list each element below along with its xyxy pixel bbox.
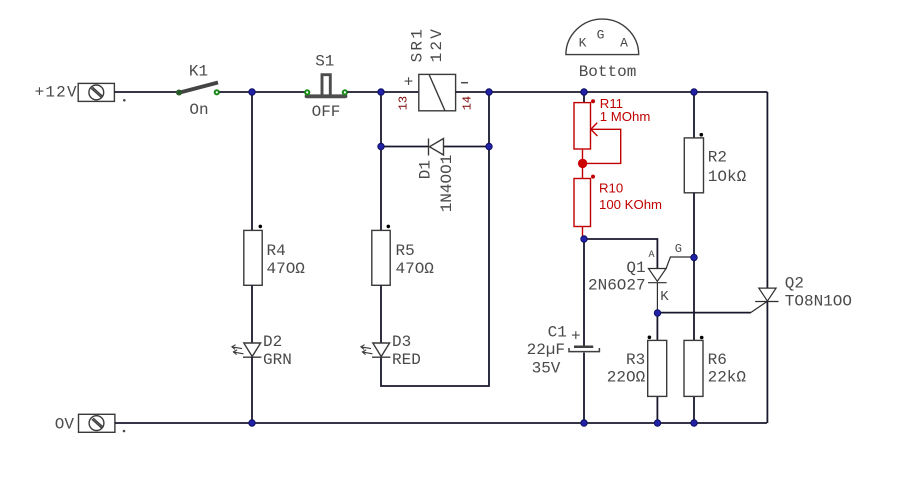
pin dot R2	[700, 133, 704, 137]
wire Q2 cathode down	[766, 302, 768, 424]
wire K1 to S1	[220, 91, 306, 93]
PUT Q1	[648, 257, 694, 313]
node R10 bottom	[581, 236, 587, 242]
node rail C1	[581, 420, 587, 426]
svg-text:47OΩ: 47OΩ	[396, 260, 435, 278]
svg-text:R4: R4	[267, 242, 286, 260]
svg-text:Bottom: Bottom	[579, 63, 637, 81]
wire Q1 cathode to Q2 gate	[657, 312, 750, 314]
wire D1 left	[381, 146, 429, 148]
resistor R10	[574, 179, 591, 240]
svg-text:47OΩ: 47OΩ	[267, 260, 306, 278]
wire right branch down and to D3	[381, 92, 489, 386]
terminal 0V	[79, 414, 115, 432]
svg-text:2N6O27: 2N6O27	[588, 277, 646, 295]
svg-text:+: +	[571, 328, 581, 346]
svg-text:K: K	[579, 36, 587, 51]
pushbutton S1	[304, 75, 348, 97]
svg-text:A: A	[620, 36, 628, 51]
svg-text:22µF: 22µF	[527, 341, 565, 359]
bottom rail	[115, 422, 767, 424]
svg-text:SR1: SR1	[408, 27, 426, 62]
svg-text:12V: 12V	[428, 27, 446, 62]
node top SR1 right	[486, 89, 492, 95]
svg-text:R2: R2	[708, 149, 727, 167]
svg-text:Q2: Q2	[785, 275, 804, 293]
svg-text:OV: OV	[55, 416, 75, 434]
pin dot R5	[387, 225, 391, 229]
thyristor Q2	[750, 288, 778, 313]
resistor R2	[684, 138, 703, 193]
period after 0V	[123, 430, 126, 433]
diode D1	[429, 139, 444, 156]
node rail R3	[654, 420, 660, 426]
svg-text:1OkΩ: 1OkΩ	[708, 168, 747, 186]
wire into R11	[583, 92, 585, 103]
svg-text:1N4OO1: 1N4OO1	[438, 155, 456, 213]
svg-text:C1: C1	[548, 324, 567, 342]
svg-text:RED: RED	[392, 351, 421, 369]
resistor R3	[648, 340, 667, 396]
svg-text:R6: R6	[708, 351, 727, 369]
wire down to R2	[693, 92, 695, 138]
svg-text:100 KOhm: 100 KOhm	[599, 197, 662, 212]
wire R10 junction to Q1 anode	[584, 239, 657, 269]
svg-text:GRN: GRN	[263, 351, 292, 369]
wire down to R4	[251, 92, 253, 230]
svg-text:22OΩ: 22OΩ	[607, 368, 646, 386]
node rail D2	[249, 420, 255, 426]
wire R4 to D2	[251, 285, 253, 343]
svg-text:TO8N1OO: TO8N1OO	[785, 292, 852, 310]
relay SR1	[419, 74, 456, 110]
node rail R6	[691, 420, 697, 426]
LED D2	[232, 343, 262, 357]
pin dot R6	[700, 336, 704, 340]
svg-text:R10: R10	[599, 180, 623, 195]
pin dot R10	[591, 175, 595, 179]
wire D1 right	[444, 146, 490, 148]
potentiometer R11	[574, 103, 621, 179]
svg-text:D2: D2	[263, 333, 282, 351]
period after +12V	[123, 99, 126, 102]
label SR1 minus	[461, 82, 468, 84]
node D1 left	[378, 143, 384, 149]
svg-text:R5: R5	[396, 242, 415, 260]
wire top rail from +12V to K1	[115, 91, 177, 93]
resistor R5	[372, 230, 390, 285]
resistor R6	[684, 340, 703, 396]
svg-text:K1: K1	[189, 62, 208, 80]
capacitor C1	[569, 347, 599, 352]
wire R6 bottom	[693, 396, 695, 423]
wire R3 bottom	[656, 396, 658, 423]
svg-text:22kΩ: 22kΩ	[708, 368, 747, 386]
svg-text:S1: S1	[315, 52, 334, 70]
node top R11	[581, 89, 587, 95]
wire down to R5	[380, 92, 382, 230]
pin dot R4	[259, 225, 263, 229]
node Q1 cathode	[654, 310, 660, 316]
svg-text:OFF: OFF	[312, 103, 341, 121]
wire C1 top	[583, 239, 585, 346]
wire SR1 to right corner	[456, 91, 768, 93]
wire R2 to R6	[693, 193, 695, 341]
svg-text:K: K	[660, 289, 669, 305]
terminal +12V	[78, 83, 114, 101]
wire D2 to rail	[251, 357, 253, 423]
svg-text:A: A	[648, 250, 654, 261]
svg-text:G: G	[597, 28, 605, 43]
node top R2	[691, 89, 697, 95]
footprint bottom view	[566, 19, 639, 55]
svg-text:Q1: Q1	[626, 259, 645, 277]
wire S1 to SR1	[347, 91, 419, 93]
node R11/R10 junction	[578, 159, 587, 168]
svg-text:D3: D3	[392, 333, 411, 351]
pin dot R11	[591, 99, 595, 103]
node top K1/S1	[249, 89, 255, 95]
svg-text:+12V: +12V	[35, 84, 78, 102]
wire Q1 cathode to R3	[656, 313, 658, 340]
pin dot R3	[648, 336, 652, 340]
switch K1	[176, 83, 220, 96]
resistor R4	[244, 230, 262, 285]
svg-text:13: 13	[397, 96, 411, 110]
svg-text:D1: D1	[417, 160, 435, 179]
svg-text:35V: 35V	[532, 359, 561, 377]
svg-text:On: On	[189, 101, 208, 119]
wire R5 to D3	[380, 285, 382, 343]
wire right side down to Q2	[766, 92, 768, 288]
svg-text:G: G	[675, 242, 682, 256]
wire C1 bottom	[583, 353, 585, 423]
node top S1/SR1	[378, 89, 384, 95]
svg-text:1 MOhm: 1 MOhm	[600, 109, 651, 124]
svg-text:R3: R3	[626, 351, 645, 369]
node Q1 gate / R2	[691, 254, 697, 260]
node D1 right	[486, 143, 492, 149]
svg-text:+: +	[404, 74, 414, 92]
LED D3	[361, 343, 391, 357]
svg-text:14: 14	[460, 96, 474, 110]
